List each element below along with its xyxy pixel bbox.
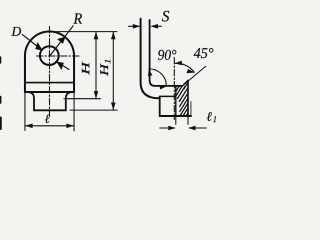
chamfer 45 xyxy=(182,80,188,86)
S arrow left xyxy=(133,24,140,29)
extension line left edge down xyxy=(24,92,26,131)
base edge line A xyxy=(25,82,74,84)
label H1 (rotated) xyxy=(100,64,108,76)
hole circle D xyxy=(40,46,59,65)
label S xyxy=(162,11,169,22)
horizontal centerline xyxy=(37,55,80,57)
lug outline: top arc R with straight sides xyxy=(25,31,74,92)
section flange left edge xyxy=(175,86,177,116)
step vertical front edge of tenon xyxy=(159,97,161,116)
90 arc arrow top xyxy=(148,69,152,77)
ghost line right of section xyxy=(190,102,192,116)
arrowhead D upper xyxy=(35,42,42,51)
leader D xyxy=(22,35,42,50)
45 chamfer extension line xyxy=(184,66,205,84)
l1 extension left xyxy=(175,116,177,124)
l1 extension right xyxy=(187,116,189,124)
extension line top (arc apex) for H,H1 xyxy=(56,31,117,33)
section flange right edge xyxy=(187,80,189,116)
tenon top edge xyxy=(160,95,176,97)
arrowhead R on arc xyxy=(57,37,65,44)
label l1 xyxy=(207,112,212,121)
label 90deg xyxy=(158,50,176,60)
dimension l line xyxy=(25,125,74,127)
45 arc arrow right xyxy=(187,69,195,73)
label l xyxy=(45,114,50,122)
extension line H1 bottom xyxy=(70,109,117,111)
outer profile: plate left face + outer bend xyxy=(141,19,160,99)
label R xyxy=(73,13,82,23)
dimension S left line xyxy=(129,25,140,27)
hatching of section xyxy=(176,83,188,115)
dimension S right line xyxy=(152,25,161,27)
90 degree angle arc xyxy=(149,69,167,86)
dimension H1 line xyxy=(112,32,114,111)
paper background xyxy=(0,0,226,147)
bottom face xyxy=(160,115,191,117)
dimension l1 right line xyxy=(189,127,206,129)
S arrow right xyxy=(151,24,158,29)
diameter tail lower xyxy=(57,62,69,70)
H1 arrow top xyxy=(111,32,116,39)
tenon (bottom tongue with fillets) xyxy=(30,92,71,110)
dimension l1 left line xyxy=(160,127,175,129)
bottom face line B xyxy=(25,91,74,93)
H arrow bottom xyxy=(94,91,99,98)
scan noise marks on left margin xyxy=(0,57,2,63)
l1 arrow right xyxy=(188,126,195,131)
vertical centerline xyxy=(49,27,51,117)
label D xyxy=(11,27,21,36)
arrowhead D lower xyxy=(56,62,63,71)
45 angle arc xyxy=(175,63,194,72)
l1 arrow left xyxy=(168,126,175,131)
inner profile: plate right face, inner fillet, foot top face xyxy=(150,20,183,86)
H1 arrow bottom xyxy=(111,103,116,110)
leader R (radial from center to label) xyxy=(51,26,74,55)
extension line right edge down xyxy=(73,92,75,131)
label 45deg xyxy=(194,48,214,58)
90 arc arrow bottom xyxy=(159,85,166,90)
l arrow left xyxy=(25,124,32,129)
45 arc arrow left xyxy=(175,61,183,66)
dimension H line xyxy=(95,32,97,99)
extension line H bottom xyxy=(64,98,101,100)
l arrow right xyxy=(66,124,73,129)
label H (rotated) xyxy=(82,62,89,75)
foot centerline xyxy=(173,58,175,120)
H arrow top xyxy=(94,32,99,39)
